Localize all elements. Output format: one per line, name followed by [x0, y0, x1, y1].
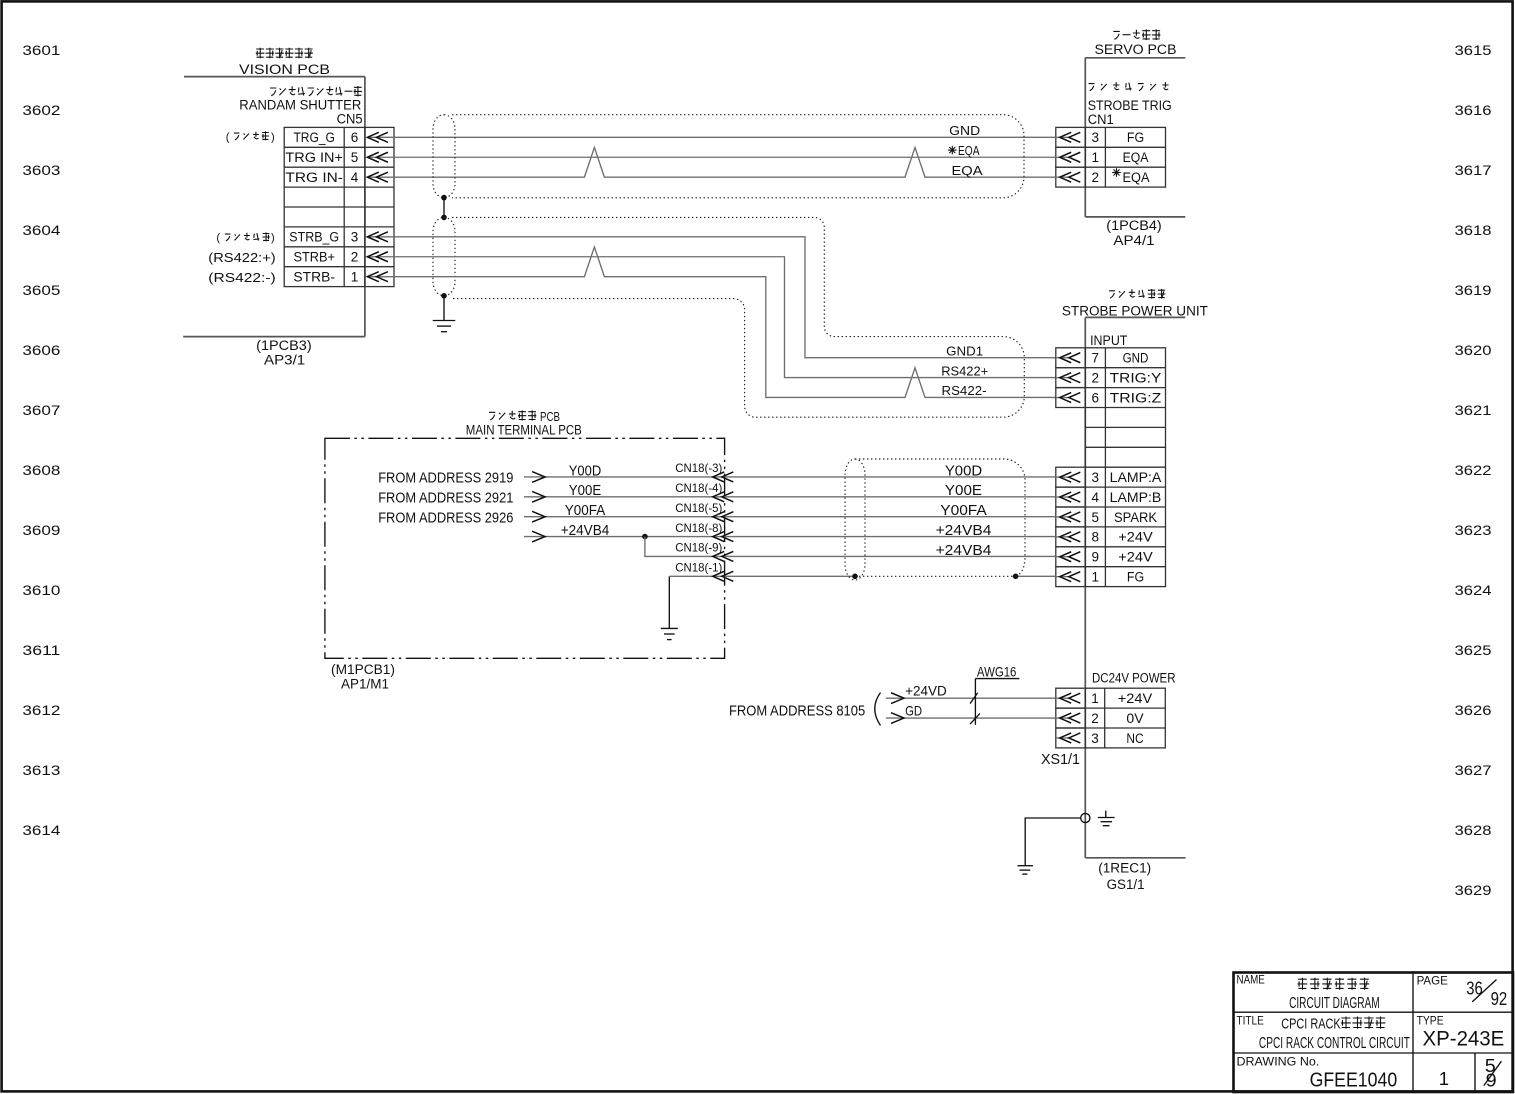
svg-text:AP4/1: AP4/1 [1113, 233, 1154, 248]
svg-text:3616: 3616 [1455, 102, 1492, 118]
svg-text:PAGE: PAGE [1417, 974, 1448, 988]
wire STRB- to RS422- (pin6) with twists [394, 247, 1056, 398]
CN1 pin 2 label *EQA [1112, 172, 1121, 174]
STROBE TRIG kana label [1089, 84, 1095, 91]
arrows << CN18(-4) [713, 492, 725, 502]
svg-text:): ) [271, 131, 275, 143]
arrows << CN18(-1) [713, 571, 725, 581]
svg-text:3610: 3610 [22, 582, 60, 598]
svg-text:6: 6 [1092, 390, 1100, 405]
svg-text:3607: 3607 [22, 402, 60, 418]
shield ground wire [443, 296, 445, 321]
svg-text:CN1: CN1 [1088, 112, 1114, 127]
svg-text:0V: 0V [1126, 711, 1143, 726]
shield dot left (FG) [852, 574, 858, 580]
svg-text:(: ( [216, 232, 220, 244]
svg-text:+24VD: +24VD [905, 683, 947, 699]
svg-text:3625: 3625 [1455, 642, 1492, 658]
wire +24VB4 branch to pin9 [645, 537, 1056, 557]
svg-text:): ) [271, 232, 275, 244]
MAIN TERMINAL PCB dash-dot box [325, 438, 725, 658]
svg-text:Y00E: Y00E [945, 483, 983, 499]
svg-text:FROM ADDRESS 2919: FROM ADDRESS 2919 [378, 470, 513, 487]
svg-text:RANDAM SHUTTER: RANDAM SHUTTER [239, 98, 361, 113]
page slash [1472, 980, 1496, 1002]
shield link wire [443, 198, 445, 218]
svg-text:Y00FA: Y00FA [565, 503, 606, 519]
title block frame [1234, 973, 1514, 1093]
svg-text:3629: 3629 [1455, 882, 1492, 898]
wire GND (TRG_G to FG) [394, 136, 1056, 138]
svg-text:CN18(-9): CN18(-9) [675, 541, 722, 555]
svg-text:+24V: +24V [1118, 530, 1152, 545]
svg-text:3609: 3609 [22, 522, 60, 538]
wire STRB_G to GND1 (pin7) [394, 237, 1056, 358]
svg-text:3621: 3621 [1455, 402, 1492, 418]
wire Y00D from terminal [524, 476, 1056, 478]
svg-text:EQA: EQA [952, 163, 983, 178]
connector DC24V table grid [1085, 688, 1165, 748]
svg-text:3: 3 [1092, 130, 1100, 145]
svg-text:5: 5 [1092, 510, 1100, 525]
svg-text:MAIN TERMINAL PCB: MAIN TERMINAL PCB [466, 422, 582, 437]
svg-text:TRG IN-: TRG IN- [285, 170, 343, 185]
svg-text:+24VB4: +24VB4 [936, 523, 992, 539]
svg-text:3615: 3615 [1455, 42, 1492, 58]
VISION PCB outline [184, 76, 365, 78]
svg-text:STRB-: STRB- [293, 269, 335, 284]
svg-text:LAMP:B: LAMP:B [1110, 490, 1162, 505]
wire +24VB4 from terminal [524, 536, 1056, 538]
svg-text:GD: GD [905, 702, 922, 718]
annotation (toriga-yo) [226, 131, 275, 143]
wire STRB+ to RS422+ (pin2) [394, 257, 1056, 378]
svg-text:+24VB4: +24VB4 [561, 523, 610, 539]
shield drain dotted (FG) [855, 575, 1016, 577]
svg-text:3602: 3602 [22, 102, 60, 118]
svg-text:2: 2 [1092, 170, 1100, 185]
cable shield bubble (output cable) [855, 459, 1025, 576]
ground (CN18-1) [668, 576, 670, 628]
svg-text:3617: 3617 [1455, 162, 1492, 178]
svg-text:9: 9 [1092, 550, 1100, 565]
connector CN1 table grid [1085, 127, 1165, 187]
svg-text:3601: 3601 [22, 42, 60, 58]
cable shield capsule (output cable) [845, 459, 865, 580]
svg-text:+24VB4: +24VB4 [936, 543, 992, 559]
shield junction dot mid [441, 215, 447, 221]
svg-text:3623: 3623 [1455, 522, 1492, 538]
svg-text:3620: 3620 [1455, 342, 1492, 358]
wire GD [886, 717, 1056, 719]
svg-text:LAMP:A: LAMP:A [1110, 470, 1162, 485]
svg-text:NC: NC [1126, 731, 1143, 746]
svg-text:EQA: EQA [1123, 170, 1150, 185]
svg-text:CN18(-1): CN18(-1) [675, 561, 722, 575]
earth symbol right [1105, 811, 1107, 818]
svg-text:FROM ADDRESS 8105: FROM ADDRESS 8105 [729, 702, 865, 719]
svg-text:AP1/M1: AP1/M1 [341, 677, 389, 692]
svg-text:XS1/1: XS1/1 [1041, 751, 1080, 768]
svg-text:TRIG:Z: TRIG:Z [1110, 390, 1162, 405]
VISION PCB kanji title [256, 48, 265, 59]
svg-text:3606: 3606 [22, 342, 60, 358]
svg-text:3603: 3603 [22, 162, 60, 178]
svg-text:SPARK: SPARK [1114, 510, 1157, 525]
svg-text:GFEE1040: GFEE1040 [1310, 1070, 1398, 1092]
svg-text:TRG IN+: TRG IN+ [285, 150, 343, 165]
svg-text:(1PCB3): (1PCB3) [256, 338, 312, 353]
svg-text:DRAWING No.: DRAWING No. [1237, 1054, 1320, 1068]
svg-text:GND: GND [949, 123, 980, 138]
svg-text:CN18(-8): CN18(-8) [675, 521, 722, 535]
svg-text:(RS422:-): (RS422:-) [208, 271, 275, 285]
svg-text:CPCI RACK CONTROL CIRCUIT: CPCI RACK CONTROL CIRCUIT [1259, 1035, 1410, 1052]
svg-text:FROM ADDRESS 2926: FROM ADDRESS 2926 [378, 509, 513, 526]
gauge slash on +24VD [970, 693, 978, 704]
svg-text:CN5: CN5 [337, 112, 363, 127]
svg-text:EQA: EQA [1123, 150, 1149, 165]
svg-text:CIRCUIT DIAGRAM: CIRCUIT DIAGRAM [1289, 995, 1380, 1012]
svg-text:(1PCB4): (1PCB4) [1106, 218, 1162, 233]
annotation (sutorobo-yo) [216, 232, 274, 244]
wire +24VD [886, 697, 1056, 699]
ground (shield) [433, 320, 456, 322]
svg-text:FG: FG [1127, 130, 1144, 145]
wire FG to pin1 [1016, 575, 1056, 577]
cable shield capsule (trigger pair) [433, 115, 455, 198]
svg-text:RS422+: RS422+ [941, 363, 988, 378]
svg-text:CPCI RACK: CPCI RACK [1281, 1016, 1340, 1033]
svg-text:GND: GND [1123, 351, 1149, 366]
svg-text:3624: 3624 [1455, 582, 1492, 598]
name kanji [1298, 978, 1308, 990]
svg-text:1: 1 [1439, 1068, 1449, 1089]
svg-text:9: 9 [1486, 1070, 1497, 1091]
svg-text:4: 4 [351, 170, 359, 185]
svg-text:3619: 3619 [1455, 282, 1492, 298]
shield junction dot upper [441, 195, 447, 201]
svg-text:XP-243E: XP-243E [1423, 1027, 1505, 1050]
AWG16 leader [975, 678, 1019, 680]
svg-text:NAME: NAME [1237, 973, 1265, 987]
svg-text:+24V: +24V [1118, 550, 1152, 565]
INPUT pin arrows << [1056, 357, 1069, 359]
svg-text:3: 3 [351, 230, 359, 245]
wire label *EQA [948, 149, 957, 151]
svg-text:7: 7 [1092, 351, 1100, 366]
svg-text:3: 3 [1092, 470, 1100, 485]
svg-text:3628: 3628 [1455, 822, 1492, 838]
svg-text:3627: 3627 [1455, 762, 1492, 778]
svg-text:STROBE TRIG: STROBE TRIG [1088, 98, 1172, 113]
svg-text:GND1: GND1 [946, 343, 983, 358]
MAIN TERMINAL PCB kanji title [489, 412, 495, 420]
svg-text:Y00FA: Y00FA [940, 503, 987, 519]
svg-text:CN18(-4): CN18(-4) [675, 481, 722, 495]
svg-text:CN18(-3): CN18(-3) [675, 461, 722, 475]
arrows << CN18(-8) [713, 532, 725, 542]
wire EQA with twist crossovers [394, 147, 1056, 177]
svg-text:GS1/1: GS1/1 [1107, 877, 1145, 892]
ground (left) [1018, 865, 1033, 867]
svg-text:TRIG:Y: TRIG:Y [1110, 370, 1162, 385]
STROBE POWER UNIT kanji title [1109, 291, 1115, 298]
svg-text:+24V: +24V [1118, 691, 1152, 706]
svg-text:92: 92 [1491, 988, 1508, 1009]
chassis terminal circle [1081, 813, 1090, 822]
svg-text:5: 5 [351, 150, 359, 165]
RANDAM SHUTTER kana label [270, 88, 276, 96]
svg-text:CN18(-5): CN18(-5) [675, 501, 722, 515]
DC24V pin arrows << [1056, 697, 1069, 699]
svg-text:(1REC1): (1REC1) [1098, 861, 1151, 876]
cable shield bubble (strobe cable) [452, 217, 1024, 417]
svg-text:AP3/1: AP3/1 [264, 352, 305, 367]
svg-text:3611: 3611 [22, 642, 60, 658]
svg-text:STRB_G: STRB_G [289, 230, 339, 245]
wire *EQA (TRG IN+ to EQA) [394, 156, 1056, 158]
arrows << CN18(-5) [713, 512, 725, 522]
svg-text:3613: 3613 [22, 762, 60, 778]
svg-text:INPUT: INPUT [1090, 333, 1127, 348]
svg-text:FG: FG [1127, 569, 1144, 584]
svg-text:TITLE: TITLE [1237, 1013, 1264, 1027]
svg-text:3608: 3608 [22, 462, 60, 478]
CN5 pin arrows << [367, 136, 394, 138]
STROBE POWER UNIT outline [1085, 316, 1185, 318]
connector INPUT table grid [1085, 348, 1165, 587]
svg-text:2: 2 [351, 250, 359, 265]
svg-text:3: 3 [1091, 731, 1099, 746]
connector CN5 table grid [284, 127, 394, 286]
svg-text:TYPE: TYPE [1417, 1013, 1444, 1027]
svg-text:EQA: EQA [958, 143, 980, 158]
wire Y00E from terminal [524, 496, 1056, 498]
svg-text:1: 1 [1092, 150, 1100, 165]
wire Y00FA from terminal [524, 516, 1056, 518]
wire circle to ground [1025, 818, 1081, 866]
svg-text:3605: 3605 [22, 282, 60, 298]
SERVO PCB kanji title [1113, 31, 1120, 39]
svg-text:VISION PCB: VISION PCB [239, 62, 330, 77]
svg-text:FROM ADDRESS 2921: FROM ADDRESS 2921 [378, 489, 513, 506]
gauge slash on GD [970, 713, 980, 724]
svg-text:(M1PCB1): (M1PCB1) [331, 662, 395, 677]
svg-text:3614: 3614 [22, 822, 60, 838]
svg-text:RS422-: RS422- [942, 383, 987, 398]
svg-text:3622: 3622 [1455, 462, 1492, 478]
svg-text:(: ( [226, 131, 230, 143]
cable shield bubble (trigger pair) [452, 115, 1024, 198]
svg-text:TRG_G: TRG_G [293, 130, 335, 145]
svg-text:1: 1 [351, 269, 359, 284]
cable shield capsule (strobe pair) [433, 217, 455, 295]
svg-text:4: 4 [1092, 490, 1100, 505]
CN1 pin arrows << [1056, 136, 1069, 138]
svg-text:3626: 3626 [1455, 702, 1492, 718]
svg-text:DC24V POWER: DC24V POWER [1092, 671, 1176, 686]
svg-text:1: 1 [1091, 691, 1099, 706]
svg-text:3612: 3612 [22, 702, 60, 718]
svg-text:AWG16: AWG16 [977, 663, 1017, 679]
shield dot right (FG) [1013, 574, 1019, 580]
sheet slash [1484, 1061, 1502, 1085]
svg-text:2: 2 [1092, 370, 1100, 385]
svg-text:Y00D: Y00D [945, 463, 982, 479]
svg-text:(RS422:+): (RS422:+) [208, 251, 275, 265]
wire FG segment [669, 575, 855, 577]
arrows << CN18(-3) [713, 472, 725, 482]
brace ( [875, 693, 881, 726]
svg-text:Y00E: Y00E [569, 483, 602, 499]
svg-text:STROBE POWER UNIT: STROBE POWER UNIT [1062, 303, 1208, 318]
svg-text:2: 2 [1091, 711, 1099, 726]
svg-text:SERVO PCB: SERVO PCB [1095, 42, 1177, 57]
svg-text:1: 1 [1092, 569, 1100, 584]
svg-text:3604: 3604 [22, 222, 60, 238]
svg-text:3618: 3618 [1455, 222, 1492, 238]
junction dot +24VB4 [642, 534, 648, 540]
svg-text:STRB+: STRB+ [293, 250, 335, 265]
arrows << CN18(-9) [713, 551, 725, 561]
svg-text:6: 6 [351, 130, 359, 145]
shield junction dot lower [441, 293, 447, 299]
SERVO PCB outline [1085, 57, 1185, 59]
title block lines [1234, 1011, 1514, 1013]
svg-text:Y00D: Y00D [569, 463, 601, 479]
svg-text:8: 8 [1092, 530, 1100, 545]
